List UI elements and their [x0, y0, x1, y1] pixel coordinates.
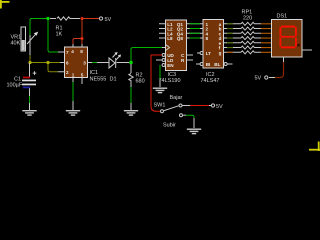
svg-text:SW1: SW1	[154, 103, 166, 109]
svg-text:1K: 1K	[56, 32, 63, 38]
svg-text:40K: 40K	[11, 41, 21, 47]
svg-text:5V: 5V	[216, 104, 223, 110]
svg-text:6: 6	[66, 61, 69, 66]
svg-text:74LS190: 74LS190	[159, 78, 181, 84]
svg-text:EN: EN	[167, 63, 174, 68]
svg-text:5V: 5V	[105, 17, 112, 23]
svg-text:Subir: Subir	[163, 123, 176, 129]
svg-text:220: 220	[243, 16, 252, 22]
svg-text:8: 8	[206, 36, 209, 41]
svg-text:BL: BL	[214, 62, 220, 67]
svg-text:Bajar: Bajar	[170, 95, 183, 101]
svg-text:NE555: NE555	[90, 77, 107, 83]
svg-text:BI: BI	[206, 62, 211, 67]
svg-text:Q8: Q8	[177, 36, 184, 41]
svg-text:g: g	[219, 50, 222, 55]
svg-text:D1: D1	[110, 77, 117, 83]
svg-text:LT: LT	[206, 51, 211, 56]
svg-text:680: 680	[136, 79, 145, 85]
svg-text:100µF: 100µF	[7, 83, 23, 89]
svg-text:5V: 5V	[255, 76, 262, 82]
svg-text:4: 4	[71, 49, 74, 54]
svg-text:L8: L8	[167, 36, 173, 41]
svg-text:1: 1	[72, 73, 75, 78]
svg-text:7: 7	[66, 50, 69, 55]
svg-text:DS1: DS1	[277, 14, 288, 20]
svg-text:3: 3	[83, 61, 86, 66]
svg-text:IC1: IC1	[90, 70, 99, 76]
svg-text:8: 8	[80, 49, 83, 54]
svg-text:2: 2	[66, 70, 69, 75]
svg-text:5: 5	[81, 73, 84, 78]
svg-text:74LS47: 74LS47	[201, 78, 220, 84]
